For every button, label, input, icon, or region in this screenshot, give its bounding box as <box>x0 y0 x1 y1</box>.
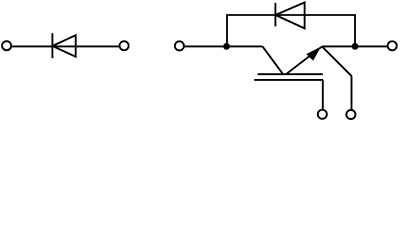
wire (collector terminal to node C) <box>184 45 226 47</box>
wire (top rail) <box>226 14 356 16</box>
node E junction dot <box>352 43 359 50</box>
diode D2 triangle <box>275 2 304 28</box>
diode D1 cathode bar <box>51 33 53 58</box>
transistor Q1 emitter arrow <box>306 47 321 61</box>
wire (emitter vertex to auxiliary emitter, diagonal) <box>322 47 352 77</box>
wire (node C to collector lead) <box>227 45 263 47</box>
terminal G (gate) <box>318 110 327 119</box>
wire (node C up to top rail) <box>226 15 228 46</box>
transistor Q1 collector diagonal <box>263 46 284 74</box>
terminal C (right element, collector) <box>175 41 184 50</box>
wire (left element horizontal) <box>11 45 119 47</box>
wire (emitter vertex to node E) <box>322 45 355 47</box>
terminal T1 (left element, left) <box>2 41 11 50</box>
wire (top rail down to node E) <box>354 15 356 46</box>
wire (gate plate down to gate terminal) <box>322 80 324 110</box>
terminal T2 (left element, right) <box>120 41 129 50</box>
diode D1 triangle <box>52 35 75 57</box>
node C junction dot <box>223 43 230 50</box>
terminal E2 (auxiliary emitter) <box>346 110 355 119</box>
wire (node E to emitter terminal) <box>355 45 388 47</box>
terminal E (right element, emitter) <box>388 41 397 50</box>
transistor Q1 gate plate <box>254 79 323 81</box>
transistor Q1 channel bar <box>258 73 323 75</box>
wire (auxiliary emitter vertical) <box>351 76 353 110</box>
transistor Q1 emitter diagonal <box>286 47 322 75</box>
diode D2 cathode bar <box>274 3 276 27</box>
